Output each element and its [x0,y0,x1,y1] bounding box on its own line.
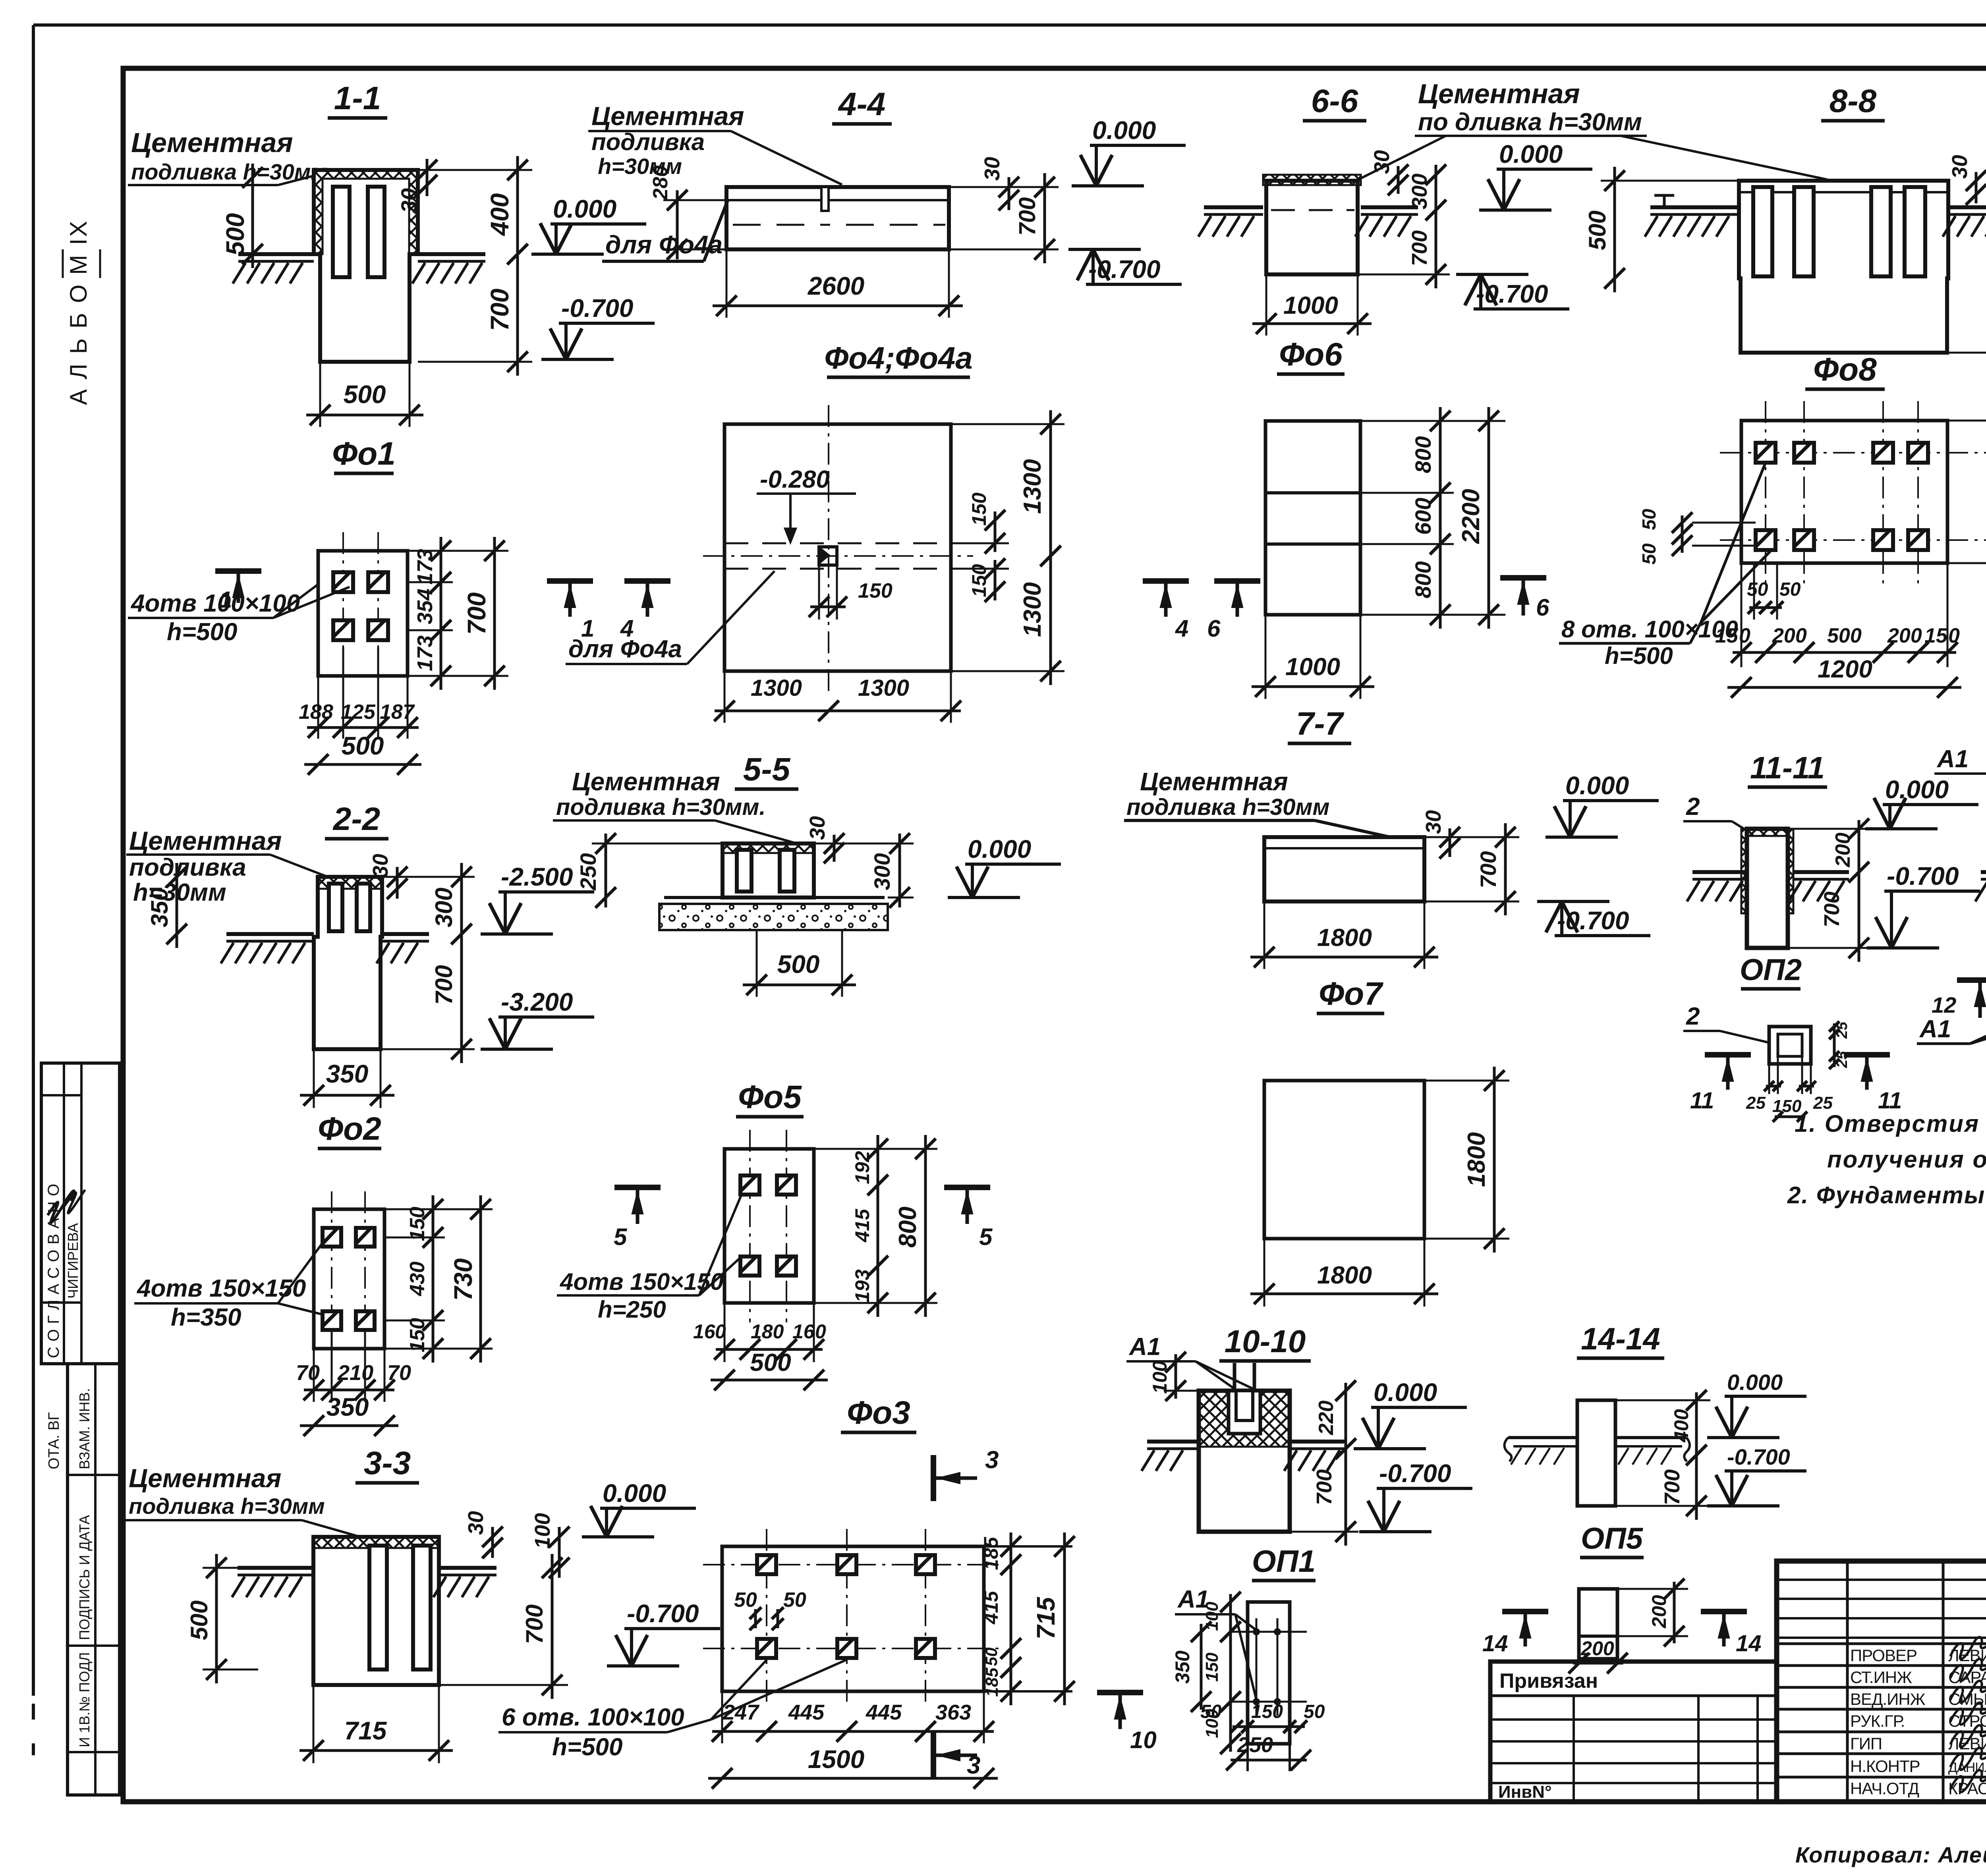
svg-text:11: 11 [1690,1088,1714,1114]
svg-text:подливка h=30мм: подливка h=30мм [129,1494,325,1519]
svg-text:500: 500 [342,731,384,760]
dim 200 right of ОП5 [1673,1582,1676,1643]
cut mark 11 right of ОП2 [1844,1052,1890,1058]
svg-text:0.000: 0.000 [1727,1370,1783,1395]
floor line right of 6-6 [1361,205,1418,209]
cut mark 1 above Фо1 [215,568,261,574]
svg-text:14: 14 [1482,1631,1508,1656]
svg-text:363: 363 [935,1700,971,1724]
svg-text:1800: 1800 [1317,924,1372,952]
svg-text:25: 25 [1834,1021,1851,1039]
foundation Фо2 section [314,877,382,1049]
svg-text:150: 150 [406,1318,429,1353]
plan Фо1 center lines [342,532,344,695]
floor line right of 11-11 [1794,870,1849,874]
plan Фо8 outline [1741,421,1947,563]
svg-text:4отв 150×150: 4отв 150×150 [560,1268,724,1295]
plan Фо4 center hole [819,547,837,565]
svg-text:15: 15 [1715,624,1739,647]
dim 30 7-7 [1449,828,1451,857]
svg-text:700: 700 [1408,230,1432,266]
svg-text:8-8: 8-8 [1830,83,1877,119]
svg-text:15: 15 [1924,624,1948,647]
dim 500 bottom of Фо5 [711,1379,828,1382]
svg-text:4-4: 4-4 [838,86,886,122]
svg-text:6 отв. 100×100: 6 отв. 100×100 [502,1704,684,1731]
foundation Фо4 section [726,187,949,249]
svg-text:3: 3 [967,1752,980,1779]
svg-text:100: 100 [531,1513,554,1549]
svg-text:8 отв. 100×100: 8 отв. 100×100 [1561,616,1738,643]
dim 1500 bottom of Фо3 [708,1777,998,1780]
svg-text:1300: 1300 [1019,459,1046,514]
svg-text:6: 6 [1536,594,1549,621]
svg-text:25: 25 [1813,1093,1833,1113]
svg-text:А Л Ь Б О М IX: А Л Ь Б О М IX [65,219,92,405]
svg-text:1300: 1300 [1019,582,1046,637]
svg-text:ИнвN°: ИнвN° [1498,1782,1552,1802]
dims 150 150 right of Фо4 recess [994,511,997,552]
dim 500 left [251,164,254,268]
svg-text:1200: 1200 [1818,656,1872,683]
floor line left of 3-3 [238,1566,313,1570]
dim 700 right of plan Фо1 [493,537,496,690]
svg-text:30: 30 [980,157,1004,181]
dim chain 400/700 right [516,156,519,268]
svg-text:3-3: 3-3 [364,1445,411,1481]
dim chain 150/430/150 right of Фо2 [432,1195,435,1251]
svg-text:50: 50 [1304,1701,1325,1722]
svg-text:1000: 1000 [1285,653,1340,681]
svg-text:0.000: 0.000 [1885,775,1949,804]
svg-text:500: 500 [1584,210,1611,250]
svg-text:6: 6 [1207,615,1221,642]
dims 70/210/70 bottom of Фо2 [313,1349,315,1402]
svg-text:2-2: 2-2 [332,801,381,837]
svg-text:125: 125 [341,701,376,724]
svg-text:-0.700: -0.700 [1379,1459,1451,1488]
dim 500 bottom Фо1 [319,362,321,427]
svg-text:445: 445 [865,1700,902,1724]
floor line right of 8-8 [1948,205,1986,209]
svg-text:200: 200 [1580,1637,1614,1660]
svg-text:Цементная: Цементная [131,127,293,158]
foundation Фо3 section [313,1537,439,1685]
dim chain 800/600/800 right of Фо6 [1439,407,1442,507]
svg-text:250: 250 [576,853,601,890]
dim 500 left 8-8 [1613,167,1616,292]
svg-text:для Фо4а: для Фо4а [568,635,682,663]
svg-text:700: 700 [1660,1469,1684,1505]
svg-text:Копировал: Алешникова: Копировал: Алешникова [1795,1842,1986,1867]
svg-text:Фо6: Фо6 [1279,336,1343,372]
svg-text:715: 715 [344,1716,387,1745]
dim 1200 bottom of Фо8 [1727,686,1961,689]
svg-text:Н.КОНТР: Н.КОНТР [1850,1757,1920,1776]
svg-text:2600: 2600 [808,272,864,300]
cut mark 1 right of plan Фо1 [547,578,593,584]
dim chain right of Фо3 [1010,1532,1012,1579]
svg-text:ГИП: ГИП [1850,1734,1882,1753]
plan Фо2 center lines [331,1191,332,1366]
svg-text:185: 185 [980,1536,1002,1570]
svg-text:415: 415 [980,1590,1002,1625]
plan Фо1 anchor holes [333,572,353,592]
svg-text:50: 50 [982,1648,1001,1666]
svg-text:25: 25 [1746,1093,1766,1113]
plan Фо4 outline [724,424,951,671]
svg-text:А1: А1 [1936,745,1969,773]
dims 50/150/50 bottom of ОП1 [1246,1744,1249,1771]
svg-text:И 1В.№ ПОДЛ: И 1В.№ ПОДЛ [76,1652,93,1747]
svg-text:Цементная: Цементная [591,101,744,131]
svg-text:250: 250 [1237,1733,1273,1757]
svg-text:150: 150 [858,579,893,602]
title block left extension [1490,1662,1777,1802]
svg-text:1800: 1800 [1317,1262,1372,1289]
cut mark 11 left of ОП2 [1705,1052,1751,1058]
svg-text:2. Фундаменты показаны в рабоч: 2. Фундаменты показаны в рабочем положен… [1787,1182,1986,1208]
dim 100 left 10-10 [1175,1354,1177,1399]
dim chain 300/700 right 6-6 [1435,165,1437,220]
svg-text:10: 10 [1130,1727,1157,1753]
svg-text:1-1: 1-1 [334,80,381,116]
cut mark 5 left of Фо5 [614,1185,661,1190]
dim 400 right 14-14 [1695,1392,1698,1463]
svg-text:800: 800 [894,1206,922,1247]
dim 250 left 5-5 [605,834,607,907]
dim 715 bottom 3-3 [313,1685,315,1763]
svg-text:700: 700 [1312,1469,1336,1505]
dim 800 right of Фо5 [924,1135,927,1317]
dims 1300 1300 bottom of Фо4 [724,671,726,723]
svg-text:30: 30 [1370,150,1394,174]
post ОП5 section [1577,1400,1615,1506]
sheet outer border [33,23,1986,27]
svg-text:1. Отверстия в фундаментах выв: 1. Отверстия в фундаментах выверить посл… [1795,1110,1986,1137]
svg-text:173: 173 [413,635,437,671]
svg-text:700: 700 [521,1604,548,1644]
plan Фо3 anchor holes [757,1555,776,1574]
svg-text:-0.700: -0.700 [1727,1444,1790,1469]
svg-text:ОП1: ОП1 [1252,1544,1316,1579]
svg-text:2200: 2200 [1457,489,1485,544]
dim 300 right 5-5 [898,834,901,907]
svg-text:350: 350 [146,888,173,927]
post ОП2 section [1747,829,1788,948]
svg-text:1800: 1800 [1463,1132,1490,1187]
floor line left of 12-12 [1981,870,1986,874]
svg-text:ВЗАМ. ИНВ.: ВЗАМ. ИНВ. [76,1388,93,1469]
svg-text:Фо5: Фо5 [738,1079,802,1115]
plan ОП5 outline [1579,1589,1617,1659]
svg-text:173: 173 [413,549,437,585]
dims 150/200/500/200/150 bottom of Фо8 [1733,651,1774,654]
dim 700 right 4-4 [1043,173,1046,263]
dim 700 right 10-10 [1345,1435,1347,1546]
plan Фо4 recess dashed lines [724,542,951,544]
svg-text:200: 200 [1831,833,1855,868]
dims 188/125/187 bottom of plan Фо1 [317,676,319,739]
svg-text:-0.700: -0.700 [561,294,633,322]
svg-text:-0.280: -0.280 [760,466,830,493]
svg-text:50: 50 [1639,543,1660,565]
cut mark 6 left of Фо6 [1214,578,1260,584]
svg-text:445: 445 [788,1700,825,1724]
svg-text:1: 1 [219,587,232,613]
svg-text:4: 4 [1175,615,1188,642]
floor line left of 2-2 [226,932,314,936]
svg-text:30: 30 [1948,155,1972,179]
floor line left of 8-8 [1650,205,1739,209]
svg-text:400: 400 [485,193,514,237]
svg-text:h=350: h=350 [171,1304,241,1331]
svg-text:30: 30 [369,854,392,878]
dim 350 left of ОП1 plan [1200,1624,1203,1710]
svg-text:430: 430 [406,1262,429,1297]
floor line right of Фо1 [418,252,485,256]
svg-text:2: 2 [1686,793,1700,820]
plan Фо8 center lines [1765,401,1766,584]
floor line right of 3-3 [439,1566,496,1570]
svg-text:193: 193 [851,1269,873,1303]
svg-text:0.000: 0.000 [1092,116,1156,145]
svg-text:700: 700 [431,965,457,1005]
dim 200 right 11-11 [1858,820,1860,881]
svg-text:-0.700: -0.700 [1887,862,1959,890]
dim 350 bottom 2-2 [313,1049,315,1108]
dim 30 8-8 [1975,172,1978,203]
cut mark 14 right of ОП5 [1701,1609,1747,1614]
dims 160/180/160 bottom of Фо5 [724,1303,726,1362]
svg-text:3: 3 [985,1446,999,1474]
dim 150 below center hole [810,606,846,608]
svg-text:50: 50 [1747,579,1768,600]
floor line left of 11-11 [1692,870,1748,874]
dims bottom of Фо3 [721,1691,723,1743]
svg-text:2: 2 [1686,1003,1700,1030]
svg-text:200: 200 [1772,624,1807,647]
svg-text:Цементная: Цементная [1140,767,1288,796]
dim 730 right of Фо2 [479,1195,482,1363]
plan ОП1 anchor points [1253,1628,1260,1635]
floor slab left of 14-14 [1508,1436,1577,1439]
svg-text:по дливка h=30мм: по дливка h=30мм [1418,108,1642,136]
svg-text:730: 730 [449,1258,477,1301]
plan Фо5 anchor holes [740,1175,759,1195]
svg-text:700: 700 [1820,892,1844,927]
svg-text:210: 210 [337,1361,373,1385]
svg-text:0.000: 0.000 [1499,140,1563,168]
dim 1800 right of Фо7 [1493,1067,1496,1253]
svg-text:Цементная: Цементная [129,826,282,855]
svg-text:30: 30 [396,188,421,213]
floor slab right of 14-14 [1615,1436,1687,1439]
svg-text:Фо7: Фо7 [1319,976,1383,1012]
dim chain 300/700 right 2-2 [460,863,463,948]
svg-text:70: 70 [387,1361,411,1385]
svg-text:700: 700 [462,593,491,635]
cut mark 12 left of ОП3 [1957,977,1986,983]
plan Фо7 outline [1264,1081,1424,1239]
floor line right of 10-10 [1290,1440,1345,1444]
svg-text:180: 180 [751,1320,784,1343]
cut mark 3 above Фо3 [931,1455,936,1501]
dim chain left of ОП1 plan [1229,1594,1232,1640]
svg-text:30: 30 [464,1511,488,1535]
svg-text:354: 354 [413,589,437,624]
dim 1000 bottom 6-6 [1265,274,1267,336]
svg-text:ПОДПИСЬ И ДАТА: ПОДПИСЬ И ДАТА [76,1515,93,1640]
dim 2600 bottom 4-4 [726,249,728,318]
svg-text:0: 0 [1948,624,1960,647]
svg-text:800: 800 [1410,436,1435,473]
dim 700 right 14-14 [1695,1441,1698,1520]
svg-text:1300: 1300 [858,675,909,701]
svg-text:200: 200 [1648,1595,1670,1629]
svg-text:500: 500 [750,1349,791,1376]
dim 350 left 2-2 [176,863,178,948]
svg-text:ОП2: ОП2 [1740,953,1802,987]
svg-text:Фо4;Фо4а: Фо4;Фо4а [824,340,972,375]
svg-text:400: 400 [1670,1409,1692,1443]
dim 1800 bottom of Фо7 [1263,1239,1265,1307]
svg-text:700: 700 [1476,851,1501,888]
foundation Фо8 section [1739,181,1948,353]
svg-text:150: 150 [968,492,990,526]
plan Фо8 anchor holes [1756,443,1775,463]
svg-text:16: 16 [792,1320,815,1343]
dim 30 4-4 [1008,177,1010,210]
foundation Фо5 section [723,843,814,897]
svg-text:РУК.ГР.: РУК.ГР. [1850,1712,1905,1730]
svg-text:25: 25 [1834,1051,1851,1068]
dim 715 right of Фо3 [1063,1532,1066,1705]
svg-text:НАЧ.ОТД: НАЧ.ОТД [1850,1779,1919,1798]
svg-text:10-10: 10-10 [1225,1324,1306,1359]
svg-text:5: 5 [979,1224,993,1250]
svg-text:ПРОВЕР: ПРОВЕР [1850,1646,1917,1665]
svg-text:-0.700: -0.700 [627,1599,699,1628]
svg-text:100: 100 [1149,1361,1171,1394]
dims 25/100/25 right of ОП2 [1833,1023,1836,1037]
dim 1800 bottom 7-7 [1263,901,1265,969]
title block grid [1777,1561,1986,1802]
dim 350 bottom overall Фо2 [300,1424,398,1427]
floor line left of Фо1 [238,252,314,256]
svg-text:Цементная: Цементная [1418,78,1580,109]
svg-text:247: 247 [723,1700,760,1724]
svg-text:Фо3: Фо3 [847,1395,910,1431]
svg-text:Цементная: Цементная [129,1463,281,1493]
svg-text:14: 14 [1736,1631,1762,1656]
plan Фо1 outline [318,551,408,676]
svg-text:700: 700 [485,289,514,331]
dim 100 3-3 [558,1527,561,1578]
svg-text:4отв 100×100: 4отв 100×100 [130,590,300,617]
svg-text:500: 500 [1827,624,1862,647]
svg-text:ЧИГИРЕВА: ЧИГИРЕВА [65,1223,81,1299]
svg-text:1000: 1000 [1283,292,1338,319]
svg-text:150: 150 [406,1207,429,1241]
foundation Фо6 section [1266,181,1358,274]
plan ОП2 outline [1769,1027,1811,1064]
svg-text:ВЕД.ИНЖ: ВЕД.ИНЖ [1850,1690,1926,1708]
svg-text:700: 700 [1014,197,1040,236]
svg-text:300: 300 [869,853,894,890]
dim 700 right 11-11 [1858,858,1860,962]
svg-text:подливка: подливка [591,129,705,155]
svg-text:СТ.ИНЖ: СТ.ИНЖ [1850,1668,1912,1687]
svg-text:150: 150 [1202,1652,1222,1682]
svg-text:500: 500 [344,380,386,409]
svg-text:11: 11 [1878,1088,1902,1114]
plan Фо3 outline [722,1546,984,1691]
svg-text:А1: А1 [1919,1015,1951,1043]
left stamp boxes upper [41,1063,120,1364]
svg-text:30: 30 [806,816,829,840]
plan Фо6 outline [1265,421,1360,615]
svg-text:получения оборудования.: получения оборудования. [1827,1146,1986,1173]
dim 30 grout 2-2 [396,867,399,899]
dim 220 right 10-10 [1345,1383,1347,1457]
svg-text:280: 280 [649,166,672,201]
svg-text:h=500: h=500 [1605,643,1673,669]
dim chain 173/354/173 right of plan Фо1 [440,537,442,596]
svg-text:500: 500 [186,1600,213,1640]
cut mark 3 below Фо3 [931,1732,936,1778]
svg-text:350: 350 [326,1060,369,1088]
svg-text:14-14: 14-14 [1581,1321,1660,1356]
left stamp boxes lower [68,1364,120,1795]
svg-text:715: 715 [1032,1596,1060,1639]
plan ОП1 outline [1248,1602,1290,1744]
svg-text:А1: А1 [1128,1333,1161,1361]
dims 25/25 below ОП2 [1768,1064,1770,1094]
svg-text:350: 350 [1171,1650,1194,1684]
svg-text:0.000: 0.000 [1374,1378,1437,1407]
svg-text:5-5: 5-5 [743,751,791,787]
svg-text:5: 5 [614,1224,628,1250]
svg-text:187: 187 [380,701,415,724]
foundation Фо7 section [1264,837,1424,901]
svg-text:h=500: h=500 [552,1733,623,1761]
plan Фо5 outline [724,1149,814,1303]
post ОП1 section 10-10 [1199,1391,1290,1532]
cut mark 14 left of ОП5 [1502,1609,1548,1614]
svg-text:Фо2: Фо2 [318,1111,381,1147]
svg-text:-3.200: -3.200 [501,988,573,1016]
svg-text:350: 350 [326,1393,369,1421]
svg-text:300: 300 [431,888,457,927]
dim 30 grout [426,159,429,196]
plan Фо2 anchor holes [323,1228,341,1247]
floor line left of 6-6 [1204,205,1263,209]
svg-text:11-11: 11-11 [1750,750,1825,785]
dim 200 bottom of ОП5 [1573,1662,1623,1665]
svg-text:1300: 1300 [751,675,802,701]
svg-text:h=500: h=500 [167,618,238,646]
svg-text:500: 500 [777,950,820,979]
svg-text:50: 50 [783,1588,806,1612]
svg-text:ОП5: ОП5 [1581,1522,1644,1556]
cut mark 4 right of Фо4 [1143,578,1189,584]
dims 1300 1300 right of Фо4 [1049,410,1052,570]
plan Фо5 center lines [749,1130,751,1322]
dim 500 bottom overall plan Фо1 [304,763,421,766]
svg-text:подливка h=30мм.: подливка h=30мм. [556,794,765,820]
cut mark 5 right of Фо5 [944,1185,990,1190]
